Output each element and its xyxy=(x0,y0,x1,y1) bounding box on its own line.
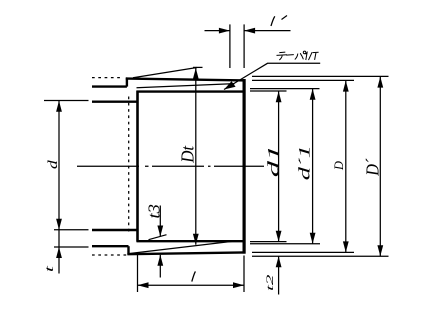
step vertical top xyxy=(126,78,128,87)
svg-text:D: D xyxy=(332,161,346,171)
dimension l line xyxy=(138,284,245,286)
socket bore bottom line xyxy=(137,240,244,242)
pipe bore bottom line xyxy=(92,229,138,231)
dimension Dt line xyxy=(195,68,197,245)
dimension d extension line top xyxy=(44,100,89,102)
dimension D' arrow bottom xyxy=(377,245,383,256)
label taper 1/T (katakana drawn as strokes) xyxy=(277,51,319,60)
dimension D line xyxy=(345,81,347,253)
dimension d1 arrow bottom xyxy=(276,231,282,242)
socket bore top line xyxy=(137,90,244,92)
dimension l' line right xyxy=(244,30,290,32)
dimension D' arrow top xyxy=(377,77,383,88)
taper label leader arrowhead xyxy=(224,81,236,89)
dimension D extension line top xyxy=(252,79,354,81)
dimension l extension line right xyxy=(243,256,245,293)
dimension t2 line xyxy=(278,256,280,294)
svg-text:d1: d1 xyxy=(264,145,282,178)
end face line xyxy=(243,79,246,254)
svg-text:t: t xyxy=(43,266,56,272)
dimension d'1 arrow top xyxy=(310,89,316,100)
pipe outer top line xyxy=(92,85,127,87)
dimension t3 arrow upper xyxy=(157,226,163,237)
svg-text:t2: t2 xyxy=(264,274,275,291)
dimension d1 extension line top xyxy=(250,90,287,92)
dimension l' extension line right xyxy=(243,24,245,68)
hidden vertical dotted line xyxy=(128,97,130,235)
dimension t extension line lower xyxy=(54,246,89,248)
dimension t3 arrow lower xyxy=(157,255,163,266)
pipe outer bottom line xyxy=(92,245,129,247)
dimension t2 arrow xyxy=(276,256,282,267)
dimension D' extension line bottom xyxy=(252,255,389,257)
dimension d line xyxy=(58,101,60,230)
dimension t extension line upper xyxy=(54,229,89,231)
pipe hidden bottom dotted line xyxy=(92,254,127,256)
dimension t3 line lower xyxy=(159,255,161,278)
dimension Dt arrow bottom xyxy=(193,234,199,245)
label l' xyxy=(271,16,275,26)
dimension l' line left xyxy=(205,30,230,32)
taper tick at Dt xyxy=(193,66,203,68)
dimension l extension line left xyxy=(137,254,139,293)
dimension d'1 extension line bottom xyxy=(250,243,320,245)
dimension D arrow bottom xyxy=(343,241,349,252)
dimension d1 line xyxy=(278,91,280,242)
dimension l arrow right xyxy=(233,282,244,288)
dimension d'1 arrow bottom xyxy=(310,233,316,244)
dimension t arrow xyxy=(56,247,62,258)
socket outer top line xyxy=(126,79,246,81)
label l' prime xyxy=(282,16,288,20)
step vertical bottom xyxy=(127,246,129,255)
dimension t3 line upper xyxy=(159,206,161,237)
dimension l' arrow right xyxy=(244,28,255,34)
centerline xyxy=(77,165,264,167)
dimension D' extension line top xyxy=(252,75,389,77)
dimension l' extension line left xyxy=(229,24,231,68)
pipe hidden top dotted line xyxy=(92,77,122,79)
dimension l' arrow left xyxy=(219,28,230,34)
taper crest line top xyxy=(137,84,235,88)
dimension l arrow left xyxy=(138,282,149,288)
pipe bore top line xyxy=(92,100,138,102)
taper root line bottom xyxy=(128,241,233,253)
taper crest tick bottom xyxy=(149,235,167,240)
taper label leader line xyxy=(224,63,320,89)
svg-text:D´: D´ xyxy=(363,158,383,176)
dimension D extension line bottom xyxy=(252,251,354,253)
dimension d'1 line xyxy=(312,89,314,244)
dimension D arrow top xyxy=(343,81,349,92)
svg-text:d´1: d´1 xyxy=(296,145,313,180)
dimension d'1 extension line top xyxy=(250,88,320,90)
dimension d1 arrow top xyxy=(276,91,282,102)
taper construction diagonal above socket xyxy=(133,68,197,78)
socket inner wall line xyxy=(136,91,139,242)
dimension t line xyxy=(58,230,60,274)
dimension Dt arrow top xyxy=(193,68,199,79)
dimension d arrow bottom xyxy=(56,219,62,230)
svg-text:t3: t3 xyxy=(144,204,163,219)
dimension D' line xyxy=(379,77,381,257)
svg-text:d: d xyxy=(46,160,61,169)
svg-text:Dt: Dt xyxy=(178,145,197,164)
label l xyxy=(192,271,196,281)
dimension d arrow top xyxy=(56,101,62,112)
dimension d1 extension line bottom xyxy=(250,241,287,243)
socket outer bottom line xyxy=(127,252,245,254)
